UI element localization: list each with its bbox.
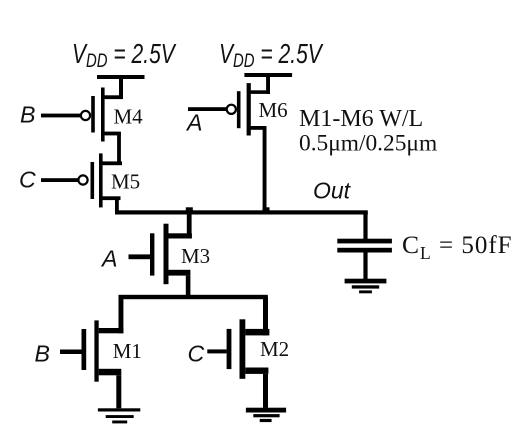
wire bottom rail (M3 source to M1/M2 drains) bbox=[119, 295, 268, 299]
svg-text:C: C bbox=[188, 341, 205, 367]
wire input A to M6 gate bbox=[188, 107, 227, 111]
wire input A to M3 gate bbox=[129, 254, 151, 259]
ground (capacitor) bbox=[345, 279, 387, 294]
wire capacitor to ground bbox=[363, 253, 367, 280]
gate bubble M5 bbox=[78, 175, 87, 184]
ground (M1) bbox=[98, 408, 140, 423]
gate bubble M4 bbox=[81, 111, 90, 120]
wire M1 source to ground bbox=[116, 375, 121, 408]
wire input B to M1 gate bbox=[60, 350, 82, 355]
transistor M4 (PMOS) bbox=[91, 88, 122, 142]
svg-text:M3: M3 bbox=[181, 244, 210, 268]
wire input C to M2 gate bbox=[207, 349, 226, 353]
transistor M1 (NMOS) bbox=[82, 320, 124, 381]
svg-text:A: A bbox=[100, 246, 117, 272]
wire input C to M5 gate bbox=[41, 178, 79, 182]
wire M4 source to M5 drain bbox=[117, 132, 121, 165]
svg-text:C: C bbox=[19, 167, 36, 193]
transistor M3 (NMOS) bbox=[150, 224, 192, 285]
junction M3 drain on Out node bbox=[186, 207, 193, 214]
svg-text:M6: M6 bbox=[259, 98, 288, 122]
svg-text:M5: M5 bbox=[111, 170, 140, 194]
wire Out node horizontal bbox=[115, 210, 368, 214]
wire Out node to capacitor bbox=[363, 212, 367, 240]
svg-text:Out: Out bbox=[313, 178, 352, 204]
svg-text:CL = 50fF: CL = 50fF bbox=[402, 230, 513, 263]
svg-text:M1: M1 bbox=[113, 339, 142, 363]
svg-text:0.5μm/0.25μm: 0.5μm/0.25μm bbox=[299, 131, 437, 157]
transistor M2 (NMOS) bbox=[227, 319, 270, 379]
svg-text:B: B bbox=[35, 341, 50, 367]
wire M6 source down to Out node bbox=[263, 130, 267, 213]
gate bubble M6 bbox=[227, 105, 236, 114]
svg-text:B: B bbox=[20, 102, 35, 128]
power rail VDD 1 bbox=[97, 75, 145, 79]
wire M5 source down to Out node bbox=[115, 197, 119, 214]
svg-text:M2: M2 bbox=[260, 337, 289, 361]
svg-text:A: A bbox=[185, 110, 202, 136]
power rail VDD 2 bbox=[244, 73, 292, 77]
wire M2 source to ground bbox=[263, 374, 268, 408]
wire input B to M4 gate bbox=[41, 114, 81, 118]
wire VDD rail to M6 drain bbox=[266, 75, 270, 94]
svg-text:M4: M4 bbox=[114, 105, 144, 129]
transistor M6 (PMOS) bbox=[237, 83, 270, 135]
wire rail down to M1 drain bbox=[119, 297, 124, 333]
wire rail down to M2 drain bbox=[263, 297, 268, 335]
capacitor CL top plate bbox=[337, 239, 392, 244]
svg-text:M1-M6 W/L: M1-M6 W/L bbox=[299, 106, 423, 132]
junction M6 drain on Out node bbox=[263, 207, 270, 214]
ground (M2) bbox=[246, 408, 286, 422]
wire M3 source down to bottom rail bbox=[186, 276, 191, 298]
wire VDD rail to M4 drain bbox=[119, 77, 123, 99]
wire Out node down to M3 drain bbox=[187, 214, 192, 239]
transistor M5 (PMOS) bbox=[91, 153, 123, 207]
capacitor CL bottom plate bbox=[337, 248, 392, 253]
